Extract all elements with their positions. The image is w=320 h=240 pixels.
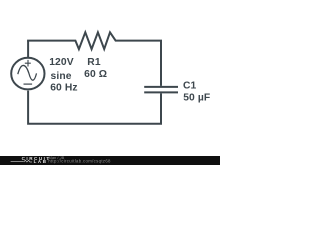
svg-text:http://circuitlab.com/csqtz68: http://circuitlab.com/csqtz68 bbox=[48, 159, 111, 164]
svg-text:LAB: LAB bbox=[34, 159, 48, 164]
